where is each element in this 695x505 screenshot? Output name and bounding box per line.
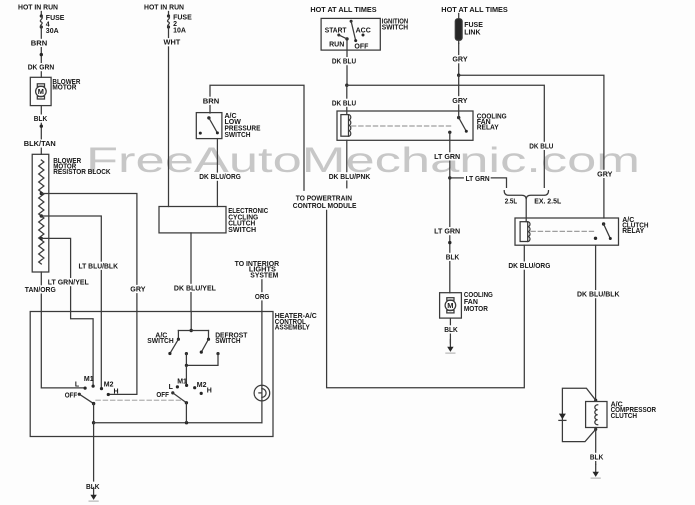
wire (PCM to A/C clutch relay coil) — [327, 210, 525, 387]
ground (heater control) — [89, 488, 98, 502]
svg-text:30A: 30A — [46, 28, 59, 35]
fuse 4 30A — [40, 14, 65, 35]
label TAN/ORG — [24, 285, 57, 294]
svg-text:WHT: WHT — [164, 40, 182, 47]
svg-text:BRN: BRN — [203, 98, 220, 105]
label DK BLU/PNK — [328, 172, 372, 181]
node TO INTERIOR LIGHTS SYSTEM — [235, 261, 280, 280]
switch feed bar — [177, 331, 210, 341]
ground (compressor clutch) — [591, 465, 600, 479]
svg-text:GRY: GRY — [452, 98, 468, 105]
a/c clutch relay — [515, 217, 649, 245]
wire (to mode switch M1) — [185, 365, 187, 385]
wire GRY (junction to A/C clutch relay) — [459, 75, 604, 218]
svg-text:SWITCH: SWITCH — [382, 24, 408, 31]
label BLK — [33, 115, 49, 124]
junction — [594, 399, 597, 402]
svg-text:SWITCH: SWITCH — [228, 227, 256, 234]
svg-text:BLK: BLK — [590, 454, 604, 461]
label LT BLU/BLK — [77, 262, 119, 271]
svg-text:HOT AT ALL TIMES: HOT AT ALL TIMES — [441, 7, 508, 14]
junction — [345, 84, 348, 87]
label DK BLU/ORG — [198, 173, 242, 182]
junction (LT GRN branch) — [448, 176, 451, 179]
svg-text:LT GRN: LT GRN — [434, 229, 460, 236]
svg-text:SWITCH: SWITCH — [147, 338, 173, 345]
svg-text:LT GRN: LT GRN — [466, 176, 490, 183]
label BLK — [443, 325, 459, 334]
svg-text:RELAY: RELAY — [477, 124, 499, 131]
label DK BLU/YEL — [173, 284, 217, 293]
svg-text:FUSE: FUSE — [464, 22, 483, 29]
wire BRN — [40, 27, 43, 77]
svg-text:CONTROL MODULE: CONTROL MODULE — [293, 203, 357, 210]
wire LT BLU/BLK (tap2 to heater box) — [41, 216, 101, 312]
junction — [185, 364, 188, 367]
a/c low pressure switch — [196, 113, 261, 139]
junction — [457, 74, 460, 77]
svg-text:ASSEMBLY: ASSEMBLY — [275, 324, 310, 331]
svg-text:OFF: OFF — [354, 44, 369, 51]
svg-text:HOT IN RUN: HOT IN RUN — [18, 4, 58, 11]
junction — [92, 421, 95, 424]
cooling fan motor M2 — [440, 292, 494, 318]
svg-text:GRY: GRY — [597, 171, 613, 178]
resistor tap 3 — [40, 237, 43, 240]
svg-text:EX. 2.5L: EX. 2.5L — [534, 198, 562, 205]
wire (mode switch common) — [185, 403, 187, 423]
svg-text:DK GRN: DK GRN — [28, 65, 55, 72]
switch contact link — [185, 352, 220, 365]
svg-text:2.5L: 2.5L — [505, 198, 518, 205]
node TO POWERTRAIN CONTROL MODULE — [293, 195, 357, 210]
svg-text:BRN: BRN — [31, 40, 48, 47]
svg-text:ACC: ACC — [356, 27, 371, 34]
junction — [190, 329, 193, 332]
svg-text:LT GRN: LT GRN — [434, 154, 460, 161]
label LT GRN — [466, 176, 490, 183]
wire TAN/ORG (resistor bottom to L contact) — [41, 272, 85, 388]
label OFF — [65, 393, 78, 400]
svg-text:OFF: OFF — [65, 393, 78, 400]
svg-text:BLK: BLK — [444, 327, 458, 334]
svg-text:TO POWERTRAIN: TO POWERTRAIN — [296, 195, 352, 202]
wire DK BLU (junction to 2.5L brace) — [347, 85, 545, 187]
label L — [75, 382, 80, 389]
a/c compressor clutch — [586, 401, 657, 427]
svg-text:BLK: BLK — [86, 484, 100, 491]
blower switch lever — [79, 394, 95, 405]
wire DK BLU/ORG — [216, 139, 218, 207]
wire — [40, 12, 42, 17]
wire BRN (to powertrain control module) — [210, 85, 304, 190]
svg-text:DK BLU/BLK: DK BLU/BLK — [577, 292, 620, 299]
diode D1 — [559, 414, 566, 421]
label OFF — [156, 392, 169, 399]
svg-text:GRY: GRY — [130, 287, 146, 294]
wire ORG — [261, 280, 263, 312]
resistor tap 2 — [40, 214, 43, 217]
cooling fan relay — [337, 111, 507, 140]
resistor tap 1 — [40, 192, 43, 195]
svg-text:DK BLU/ORG: DK BLU/ORG — [508, 263, 551, 270]
label DK BLU — [331, 99, 358, 108]
wire DK BLU/BLK (relay to compressor clutch) — [595, 245, 597, 400]
wire GRY (tap1 to heater box) — [41, 194, 137, 312]
svg-text:M2: M2 — [104, 381, 114, 388]
node HOT IN RUN (fuse 4 feed) — [18, 4, 58, 11]
svg-text:H: H — [207, 388, 212, 395]
svg-text:BLK: BLK — [446, 254, 460, 261]
label DK BLU/ORG — [507, 262, 551, 271]
svg-text:M1: M1 — [84, 376, 94, 383]
svg-text:BLK: BLK — [34, 116, 48, 123]
label DK GRN — [27, 63, 56, 72]
svg-text:RESISTOR BLOCK: RESISTOR BLOCK — [53, 169, 110, 176]
wire (brace to A/C clutch relay coil) — [525, 199, 527, 222]
wire BLK (heater ground) — [93, 423, 95, 481]
wire LT GRN/YEL (tap3 to heater box) — [41, 238, 70, 311]
heater-a/c control assembly box — [30, 312, 317, 437]
label M2 — [104, 381, 114, 388]
wire LT GRN (relay output) — [449, 132, 451, 292]
illumination lamp — [254, 385, 270, 401]
svg-text:HOT AT ALL TIMES: HOT AT ALL TIMES — [310, 7, 377, 14]
wire DK BLU/YEL (inside) — [190, 312, 192, 331]
label GRY — [451, 96, 469, 105]
svg-text:H: H — [114, 389, 119, 396]
wire — [168, 12, 170, 17]
svg-text:MOTOR: MOTOR — [464, 306, 488, 313]
mode switch contacts — [171, 384, 203, 395]
node HOT AT ALL TIMES (fuse link feed) — [441, 7, 508, 14]
wire LT GRN branch to brace — [450, 178, 507, 188]
label M1 — [84, 376, 94, 383]
label ORG — [254, 292, 271, 301]
svg-text:MOTOR: MOTOR — [52, 85, 76, 92]
label DK BLU (right) — [528, 142, 555, 151]
svg-text:ORG: ORG — [255, 294, 270, 301]
svg-text:DK BLU/PNK: DK BLU/PNK — [329, 174, 371, 181]
wire GRY (inside, to H) — [109, 312, 137, 395]
label GRY — [129, 285, 147, 294]
label BRN — [202, 97, 221, 106]
defrost switch — [200, 332, 248, 353]
wire DK BLU (ignition output) — [346, 39, 348, 85]
label LT GRN — [433, 152, 461, 161]
label L — [169, 384, 174, 391]
label H — [207, 388, 212, 395]
wire DK BLU/YEL — [190, 233, 192, 312]
ground (cooling fan motor) — [446, 340, 455, 354]
svg-text:DK BLU/ORG: DK BLU/ORG — [199, 174, 241, 181]
svg-text:DK BLU: DK BLU — [332, 100, 356, 107]
svg-text:OFF: OFF — [156, 392, 169, 399]
blower motor M1 — [30, 77, 80, 105]
wire (blower switch common) — [93, 404, 95, 423]
svg-text:BLK/TAN: BLK/TAN — [24, 141, 56, 148]
fusible link — [455, 14, 483, 44]
wire (common bus) — [94, 422, 262, 424]
wire BLK — [40, 106, 43, 155]
svg-text:M: M — [447, 301, 453, 310]
label BLK — [85, 482, 101, 491]
wire BLK (compressor ground) — [595, 428, 597, 465]
mode switch lever — [173, 393, 188, 405]
label BLK/TAN — [23, 139, 57, 148]
blower motor resistor block — [32, 154, 110, 272]
svg-text:LINK: LINK — [464, 30, 480, 37]
wire GRY (junction to cooling fan relay) — [458, 75, 460, 117]
svg-text:M: M — [38, 87, 44, 96]
label BLK — [589, 453, 605, 462]
svg-text:RUN: RUN — [329, 41, 344, 48]
label H — [114, 389, 119, 396]
svg-text:TAN/ORG: TAN/ORG — [25, 287, 57, 294]
svg-text:GRY: GRY — [452, 57, 468, 64]
label LT GRN/YEL — [47, 278, 90, 287]
wire LT GRN/YEL (inside, to M1) — [71, 312, 94, 386]
svg-text:L: L — [75, 382, 80, 389]
electronic cycling clutch switch — [159, 207, 268, 234]
svg-text:CLUTCH: CLUTCH — [611, 413, 638, 420]
svg-text:HOT IN RUN: HOT IN RUN — [144, 4, 184, 11]
label DK BLU/BLK — [576, 290, 621, 299]
label WHT — [162, 38, 181, 47]
label EX. 2.5L — [534, 198, 562, 205]
wire LT BLU/BLK (inside, to M2) — [100, 312, 102, 389]
label BRN — [30, 39, 49, 48]
label LT GRN — [433, 227, 461, 236]
wire BLK (fan motor ground) — [449, 318, 451, 343]
blower switch contacts — [78, 385, 110, 397]
label BLK — [445, 253, 461, 262]
label M2 — [197, 382, 207, 389]
node HOT IN RUN (fuse 2 feed) — [144, 4, 184, 11]
node HOT AT ALL TIMES (ignition feed) — [310, 7, 377, 14]
label DK BLU/PNK wire — [346, 140, 348, 188]
watermark — [86, 141, 640, 180]
wire ORG (inside, through lamp) — [261, 312, 263, 423]
diode bypass wire — [562, 388, 595, 441]
svg-text:LT BLU/BLK: LT BLU/BLK — [79, 263, 119, 270]
brace (engine option) — [504, 191, 548, 200]
ignition switch — [321, 18, 408, 50]
svg-text:RELAY: RELAY — [622, 228, 644, 235]
label M1 — [177, 378, 187, 385]
svg-text:DK BLU: DK BLU — [332, 59, 356, 66]
wire DK BLU (to cooling fan relay coil) — [346, 85, 348, 114]
fuse 2 10A — [167, 14, 192, 34]
label GRY — [451, 55, 469, 64]
label 2.5L — [505, 198, 518, 205]
junction — [594, 428, 597, 431]
svg-text:DK BLU: DK BLU — [529, 143, 553, 150]
junction — [185, 421, 188, 424]
svg-text:START: START — [325, 27, 347, 34]
svg-text:M1: M1 — [177, 378, 187, 385]
label DK BLU — [331, 57, 358, 66]
junction (connector) — [448, 241, 451, 244]
svg-text:L: L — [169, 384, 174, 391]
label GRY (right) — [596, 170, 614, 179]
svg-text:SYSTEM: SYSTEM — [250, 272, 278, 279]
svg-text:M2: M2 — [197, 382, 207, 389]
a/c switch — [147, 332, 178, 355]
wire GRY — [458, 43, 460, 75]
svg-text:SWITCH: SWITCH — [225, 132, 251, 139]
dashed link (switch gang) — [96, 399, 183, 401]
svg-text:SWITCH: SWITCH — [215, 338, 240, 345]
svg-text:DK BLU/YEL: DK BLU/YEL — [174, 285, 217, 292]
svg-text:10A: 10A — [173, 28, 186, 35]
wire WHT — [168, 27, 170, 207]
